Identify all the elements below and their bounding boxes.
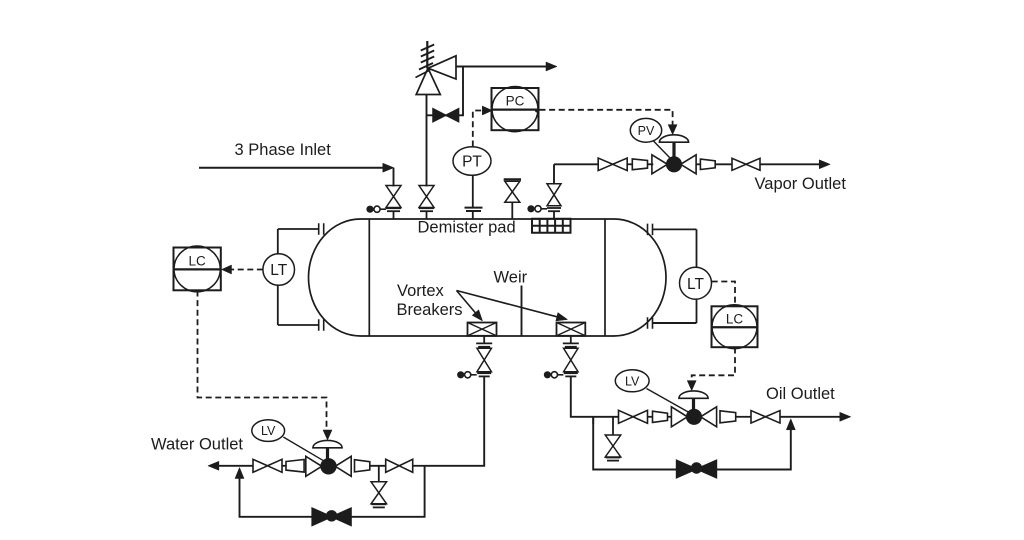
label Vortex Breakers <box>397 282 463 319</box>
oil downcomer wire <box>571 376 618 416</box>
water bypass return arrow <box>235 468 244 479</box>
vapor header wire <box>554 163 598 165</box>
water control valve LV body <box>306 456 351 476</box>
vortex breaker left <box>468 323 497 336</box>
PT tap wire <box>472 175 474 219</box>
flare header wire <box>456 66 548 68</box>
water LV tag bubble <box>252 420 325 461</box>
label Water Outlet <box>151 435 243 453</box>
left LT lower tap wire <box>278 324 319 326</box>
pressure controller PC <box>492 87 540 132</box>
water boot nozzle wire <box>483 336 485 343</box>
svg-text:Oil Outlet: Oil Outlet <box>766 385 835 403</box>
water reducer 2 <box>355 460 370 472</box>
separator vessel V-100 shell <box>309 219 667 336</box>
oil gate valve 1 <box>619 410 648 423</box>
oil control valve LV body <box>671 407 716 427</box>
vapor outlet flow arrow <box>819 160 830 169</box>
wire <box>282 465 286 467</box>
LC signal arrow left <box>222 265 232 274</box>
oil LV tag bubble <box>615 370 690 413</box>
PSV spring <box>416 41 435 78</box>
oil bypass valve (closed) <box>677 460 717 478</box>
vapor outlet wire <box>760 163 821 165</box>
left lower LT tap nozzle <box>319 319 324 331</box>
vessel left head tangent line <box>368 219 370 336</box>
label Vapor Outlet <box>755 175 847 193</box>
pressure transmitter PT <box>453 147 491 176</box>
water outlet flow arrow <box>208 461 219 470</box>
water gate valve 1 <box>253 459 282 472</box>
water bypass valve (closed) <box>312 508 351 526</box>
inlet flow arrow <box>383 163 394 172</box>
water gate valve 2 <box>386 459 413 472</box>
wire <box>627 163 632 165</box>
vapor riser wire <box>553 164 555 183</box>
leader arrow to left vortex breaker <box>457 291 483 322</box>
vapor gate valve 1 <box>598 158 627 171</box>
PC to PV signal <box>540 110 673 125</box>
svg-text:LC: LC <box>726 311 744 326</box>
svg-text:Demister pad: Demister pad <box>418 219 516 237</box>
PSV bypass wire <box>427 67 464 116</box>
oil drain valve <box>605 435 621 461</box>
oil outlet wire <box>780 416 841 418</box>
oil nozzle flange <box>563 343 579 346</box>
PSV inlet block valve <box>419 186 434 212</box>
water drain tee wire <box>378 466 380 482</box>
water root valve flange <box>477 373 491 376</box>
vapor gate valve 2 <box>732 158 760 170</box>
water root valve vent plug <box>457 371 477 378</box>
level controller LC right <box>712 305 758 349</box>
PT tap capacitor flange <box>465 208 483 211</box>
left LT upper tap wire <box>278 228 319 230</box>
vapor reducer 2 <box>700 159 715 169</box>
flare flow arrow <box>546 62 557 71</box>
oil outlet flow arrow <box>840 412 851 421</box>
PT to PC signal <box>473 111 483 147</box>
svg-text:Vapor Outlet: Vapor Outlet <box>755 175 847 193</box>
pressure control valve PV body <box>652 155 696 174</box>
label Weir <box>494 268 528 286</box>
spare nozzle blind flange <box>504 178 521 180</box>
oil bypass return arrow <box>786 419 795 430</box>
oil root valve vent plug <box>544 371 564 378</box>
inlet valve stem wire <box>393 211 395 219</box>
wire <box>648 163 654 165</box>
left upper LT tap nozzle <box>319 223 324 235</box>
right LT lower tap wire <box>653 322 697 324</box>
oil root valve <box>564 348 579 372</box>
PSV bypass valve (closed) <box>433 109 459 122</box>
oil bypass tee wire <box>592 417 594 424</box>
wire <box>648 416 653 418</box>
oil root valve flange <box>564 373 578 376</box>
inlet block valve <box>386 186 401 212</box>
PSV riser wire <box>426 95 428 187</box>
wire <box>668 416 673 418</box>
oil bypass wire <box>593 417 791 470</box>
label 3 Phase Inlet <box>235 141 332 159</box>
water outlet wire <box>218 465 254 467</box>
label Demister pad <box>418 219 516 237</box>
PSV valve stem wire <box>426 211 428 219</box>
wire <box>696 163 701 165</box>
svg-text:PT: PT <box>462 154 482 171</box>
inlet line <box>199 167 384 169</box>
svg-text:LT: LT <box>270 262 287 279</box>
vapor valve stem wire <box>553 211 555 219</box>
label Oil Outlet <box>766 385 835 403</box>
svg-text:Water Outlet: Water Outlet <box>151 435 243 453</box>
oil drain tee wire <box>612 417 614 435</box>
water nozzle flange <box>476 343 492 346</box>
oil gate valve 2 <box>751 411 780 424</box>
level transmitter LT left <box>263 254 295 286</box>
relief valve PSV <box>416 56 456 95</box>
oil boot nozzle wire <box>570 336 572 343</box>
spare nozzle valve <box>505 181 520 202</box>
level controller LC left <box>174 246 221 292</box>
svg-text:LT: LT <box>687 276 704 293</box>
svg-text:3 Phase Inlet: 3 Phase Inlet <box>235 141 332 159</box>
svg-text:Vortex: Vortex <box>397 282 445 300</box>
LT to LC signal left <box>231 269 263 271</box>
right LT upper tap wire <box>653 228 697 230</box>
vapor outlet block valve <box>547 184 561 211</box>
wire <box>413 465 425 467</box>
wire <box>715 163 732 165</box>
water downcomer wire <box>425 376 485 465</box>
demister pad grid <box>531 219 572 233</box>
water reducer 1 <box>286 460 304 473</box>
water root valve <box>477 348 492 372</box>
leader arrow to right vortex breaker <box>457 291 568 321</box>
vortex breaker right <box>557 323 586 336</box>
LC to LV signal right <box>692 348 735 382</box>
spare nozzle wire <box>511 202 513 219</box>
right upper LT tap nozzle <box>648 224 653 236</box>
svg-text:LV: LV <box>261 424 276 438</box>
inlet drop wire <box>393 168 395 187</box>
left LT standpipe wire <box>277 229 279 325</box>
vapor reducer 1 <box>632 159 647 170</box>
PV actuator <box>659 135 688 158</box>
right lower LT tap nozzle <box>648 317 653 329</box>
svg-text:Weir: Weir <box>494 268 528 286</box>
water drain valve <box>371 482 387 508</box>
svg-text:Breakers: Breakers <box>397 301 463 319</box>
PC signal arrow <box>482 106 492 115</box>
svg-text:LV: LV <box>625 374 640 388</box>
oil LV actuator <box>679 391 708 411</box>
LT to LC signal right <box>712 282 735 306</box>
water bypass wire <box>240 466 425 517</box>
PV signal arrow <box>668 125 677 135</box>
weir plate <box>521 286 523 336</box>
svg-text:PC: PC <box>506 94 525 109</box>
water LV signal arrow <box>323 430 332 440</box>
inlet valve vent plug <box>366 206 386 213</box>
LC to LV signal left <box>198 291 327 431</box>
oil reducer 1 <box>653 411 668 422</box>
PV tag bubble <box>630 118 670 158</box>
level transmitter LT right <box>680 267 712 299</box>
svg-text:PV: PV <box>638 124 655 138</box>
water LV actuator <box>313 440 342 460</box>
oil LV signal arrow <box>687 381 696 391</box>
vessel right head tangent line <box>604 219 606 336</box>
oil reducer 2 <box>720 411 736 423</box>
wire <box>736 416 751 418</box>
svg-text:LC: LC <box>189 253 207 268</box>
vapor valve vent plug <box>527 205 547 212</box>
right LT standpipe wire <box>696 229 698 323</box>
wire <box>370 465 386 467</box>
